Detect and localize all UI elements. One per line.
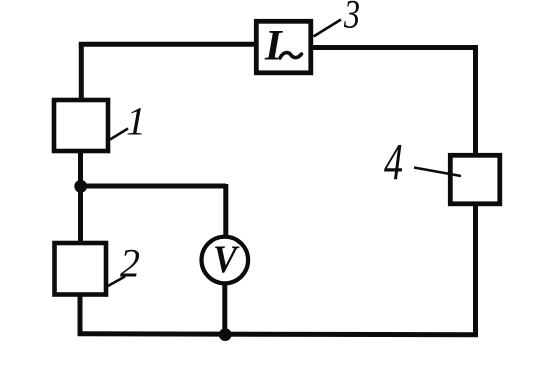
leader line to label 4 [414, 168, 461, 177]
svg-text:I: I [264, 23, 283, 70]
leader line to label 1 [110, 129, 128, 140]
wire right vertical upper (corner to box 4) [473, 45, 478, 154]
box 2 [55, 243, 107, 295]
node B junction dot (bottom) [219, 328, 232, 341]
wire top-left vertical (corner to box 1) [79, 43, 84, 102]
wire bottom horizontal [78, 334, 478, 335]
voltmeter V [202, 237, 249, 284]
wire node to voltmeter branch horizontal [79, 184, 226, 189]
svg-text:4: 4 [384, 135, 403, 192]
box 1 [54, 100, 108, 151]
wire left vertical lower (box 2 to bottom corner) [78, 296, 83, 336]
wire top-right horizontal (box 3 to right corner) [313, 45, 478, 50]
svg-text:1: 1 [126, 99, 146, 144]
svg-text:2: 2 [120, 241, 140, 286]
wire voltmeter branch vertical top [223, 184, 228, 238]
wire voltmeter to bottom junction [222, 283, 227, 336]
box 4 [450, 155, 500, 204]
box 3 (AC ammeter) [256, 21, 311, 73]
wire right vertical lower (box 4 to bottom corner) [473, 205, 478, 336]
leader line to label 3 [314, 20, 342, 37]
svg-text:V: V [213, 238, 240, 281]
wire top-left horizontal [79, 42, 257, 47]
node A junction dot [74, 180, 87, 193]
svg-text:3: 3 [343, 0, 360, 37]
leader line to label 2 [107, 277, 125, 287]
wire left vertical middle (box 1 to box 2 through node) [78, 152, 83, 242]
